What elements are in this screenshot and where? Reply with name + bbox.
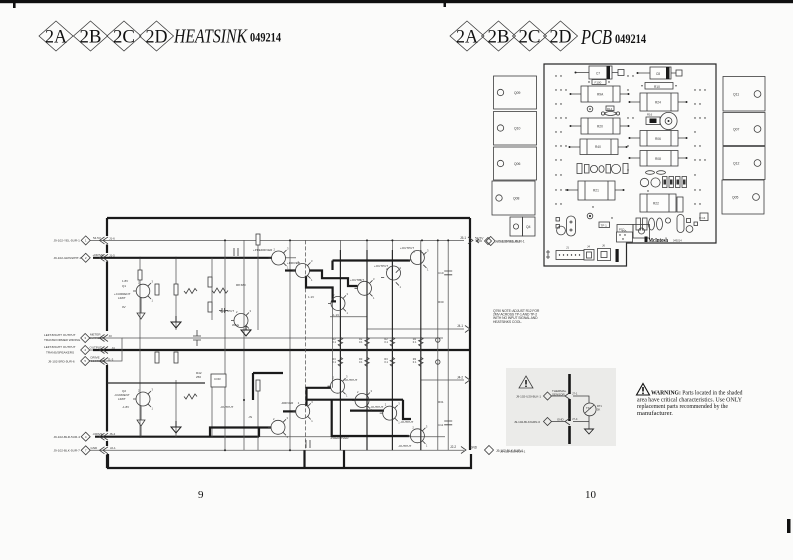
svg-text:0.1: 0.1: [332, 360, 336, 364]
svg-text:049214: 049214: [615, 31, 646, 46]
svg-text:3: 3: [398, 402, 400, 406]
svg-text:GND: GND: [470, 446, 478, 450]
svg-text:PCB: PCB: [580, 25, 612, 49]
svg-text:TRANS/SPEAKERS: TRANS/SPEAKERS: [46, 351, 74, 355]
svg-text:3: 3: [427, 249, 429, 253]
svg-text:1.8V: 1.8V: [122, 279, 128, 283]
svg-text:J9-102-BLK-5UR-7: J9-102-BLK-5UR-7: [54, 448, 81, 452]
svg-text:2: 2: [236, 310, 238, 314]
svg-text:C7: C7: [596, 71, 600, 75]
svg-text:3: 3: [152, 280, 154, 284]
svg-text:1: 1: [346, 394, 348, 398]
svg-text:J2-1: J2-1: [110, 446, 116, 450]
svg-text:J9-102-U20-BLK-1: J9-102-U20-BLK-1: [516, 394, 541, 398]
svg-text:J2-2: J2-2: [450, 445, 456, 449]
svg-text:J1-3: J1-3: [108, 357, 114, 361]
svg-text:-OUTPUT: -OUTPUT: [370, 405, 383, 409]
svg-text:54.5V: 54.5V: [93, 236, 101, 240]
svg-text:0.1: 0.1: [413, 360, 417, 364]
svg-text:SENSOR: SENSOR: [552, 392, 566, 396]
svg-text:OUTPUT: OUTPUT: [90, 345, 103, 349]
svg-text:3: 3: [371, 389, 373, 393]
svg-text:Q05: Q05: [732, 196, 739, 200]
svg-text:1: 1: [85, 239, 87, 243]
svg-text:0V: 0V: [122, 305, 126, 309]
svg-text:R14: R14: [607, 107, 613, 111]
svg-text:P1D: P1D: [619, 228, 624, 232]
svg-text:Q4: Q4: [526, 225, 531, 229]
svg-text:J1-6: J1-6: [109, 236, 115, 240]
svg-text:+DRIVER: +DRIVER: [287, 261, 301, 265]
svg-text:-1.8V: -1.8V: [122, 405, 129, 409]
svg-text:1.1V: 1.1V: [308, 295, 314, 299]
svg-text:54.5V: 54.5V: [475, 237, 484, 241]
svg-text:RT1: RT1: [597, 404, 602, 408]
svg-text:J7-1: J7-1: [572, 392, 578, 396]
svg-text:GND: GND: [557, 417, 565, 421]
svg-text:2: 2: [414, 250, 416, 254]
svg-text:2: 2: [273, 417, 275, 421]
svg-text:5: 5: [84, 359, 86, 363]
svg-text:3: 3: [287, 416, 289, 420]
svg-text:J9-102-GRN/WHT-2: J9-102-GRN/WHT-2: [54, 256, 82, 260]
svg-text:-OUTPUT: -OUTPUT: [398, 444, 411, 448]
svg-text:2: 2: [385, 403, 387, 407]
svg-text:0.1: 0.1: [359, 340, 363, 344]
svg-text:2: 2: [298, 401, 300, 405]
svg-text:F100: F100: [595, 81, 602, 85]
svg-text:LIMIT: LIMIT: [118, 296, 126, 300]
svg-text:2: 2: [274, 248, 276, 252]
svg-text:1: 1: [373, 296, 375, 300]
svg-text:manufacturer.: manufacturer.: [637, 410, 673, 417]
svg-text:1: 1: [311, 419, 313, 423]
svg-text:CURRENT: CURRENT: [89, 336, 104, 340]
svg-text:4: 4: [85, 435, 87, 439]
svg-text:Q07: Q07: [733, 128, 740, 132]
svg-text:0.1: 0.1: [332, 340, 336, 344]
svg-text:2C: 2C: [519, 28, 541, 48]
svg-text:C10: C10: [438, 271, 444, 275]
svg-text:2B: 2B: [488, 28, 510, 48]
svg-text:3: 3: [400, 266, 402, 270]
svg-text:3: 3: [311, 259, 313, 263]
svg-text:2C: 2C: [113, 28, 135, 48]
svg-text:R22: R22: [653, 202, 659, 206]
svg-text:1: 1: [287, 266, 289, 270]
svg-text:-OUTPUT: -OUTPUT: [344, 378, 357, 382]
svg-text:7: 7: [85, 449, 87, 453]
svg-text:Q12: Q12: [733, 162, 740, 166]
svg-text:J9-102-BLK/GRN-6: J9-102-BLK/GRN-6: [514, 420, 540, 424]
svg-text:1: 1: [426, 443, 428, 447]
svg-text:049214: 049214: [673, 239, 682, 243]
svg-text:Q08: Q08: [513, 197, 520, 201]
svg-text:Q10: Q10: [514, 127, 521, 131]
svg-text:TS1: TS1: [586, 406, 591, 410]
svg-text:R06: R06: [655, 137, 661, 141]
svg-text:1: 1: [152, 299, 154, 303]
svg-text:2: 2: [333, 293, 335, 297]
svg-text:Q1: Q1: [122, 284, 126, 288]
svg-text:J9-102-5RD-5UR-6: J9-102-5RD-5UR-6: [48, 360, 75, 364]
svg-text:3: 3: [250, 309, 252, 313]
svg-text:J1-5: J1-5: [109, 254, 115, 258]
svg-text:J5-1: J5-1: [460, 236, 466, 240]
svg-text:J9-102-YEL-5UR-1: J9-102-YEL-5UR-1: [54, 239, 81, 243]
svg-text:GND: GND: [91, 446, 99, 450]
svg-text:R08: R08: [655, 157, 661, 161]
svg-text:HEATSINKS COOL.: HEATSINKS COOL.: [493, 320, 522, 324]
svg-text:3: 3: [426, 424, 428, 428]
svg-text:1: 1: [152, 407, 154, 411]
svg-text:R30: R30: [438, 300, 444, 304]
svg-text:J9-102-U20-5UR-1: J9-102-U20-5UR-1: [500, 450, 526, 454]
svg-text:J6-4: J6-4: [109, 432, 115, 436]
svg-text:-DRIVE: -DRIVE: [93, 432, 103, 436]
svg-text:TP 1: TP 1: [601, 224, 608, 228]
svg-text:WAG: WAG: [232, 323, 240, 327]
svg-text:+OUTPUT: +OUTPUT: [220, 309, 234, 313]
svg-text:J6: J6: [602, 244, 605, 248]
svg-text:+OUTPUT: +OUTPUT: [374, 264, 388, 268]
svg-text:0.1: 0.1: [413, 340, 417, 344]
svg-text:0.1: 0.1: [384, 360, 388, 364]
svg-text:9: 9: [198, 489, 204, 501]
svg-text:R40: R40: [595, 145, 601, 149]
svg-text:R31: R31: [438, 400, 444, 404]
svg-text:LIMIT: LIMIT: [118, 397, 126, 401]
svg-text:0.1: 0.1: [384, 340, 388, 344]
svg-text:-IN: -IN: [248, 415, 252, 419]
svg-text:J4-1: J4-1: [457, 324, 463, 328]
svg-text:0.1: 0.1: [359, 360, 363, 364]
svg-text:2: 2: [85, 256, 87, 260]
svg-text:LEFT/RIGHT OUTPUT: LEFT/RIGHT OUTPUT: [44, 333, 76, 337]
svg-text:1: 1: [347, 311, 349, 315]
svg-text:1: 1: [400, 285, 402, 289]
svg-text:-PREDRIVER: -PREDRIVER: [330, 436, 349, 440]
svg-text:J9-102-BLR-5UR-4: J9-102-BLR-5UR-4: [54, 435, 81, 439]
svg-text:R24: R24: [655, 101, 661, 105]
svg-text:3: 3: [347, 292, 349, 296]
svg-text:R21: R21: [593, 189, 599, 193]
svg-text:LEFT/RIGHT OUTPUT: LEFT/RIGHT OUTPUT: [44, 345, 76, 349]
svg-text:C4: C4: [702, 216, 706, 220]
svg-text:R8 680: R8 680: [236, 283, 246, 287]
svg-text:McIntosh: McIntosh: [649, 237, 669, 244]
svg-text:3: 3: [373, 277, 375, 281]
svg-text:TRANSFORMER WIRING: TRANSFORMER WIRING: [44, 338, 81, 342]
svg-text:COR: COR: [214, 377, 222, 381]
svg-text:5K: 5K: [597, 407, 600, 411]
svg-text:2D: 2D: [550, 28, 572, 48]
svg-text:4: 4: [84, 348, 86, 352]
svg-text:+OUTPUT: +OUTPUT: [400, 246, 414, 250]
svg-text:2A: 2A: [456, 28, 479, 48]
svg-text:2: 2: [333, 376, 335, 380]
svg-text:C11: C11: [438, 423, 444, 427]
svg-text:J4: J4: [587, 245, 590, 249]
svg-text:2: 2: [412, 425, 414, 429]
svg-text:10: 10: [585, 489, 597, 501]
svg-text:+OUTPUT: +OUTPUT: [350, 278, 364, 282]
svg-text:+DRIVE: +DRIVE: [93, 253, 104, 257]
svg-text:-OUTPUT: -OUTPUT: [220, 405, 233, 409]
svg-text:R10: R10: [654, 85, 660, 89]
svg-text:Q11: Q11: [733, 93, 739, 97]
svg-text:-1.1V: -1.1V: [332, 313, 339, 317]
svg-text:2D: 2D: [146, 28, 168, 48]
svg-text:3: 3: [84, 336, 86, 340]
svg-text:J4: J4: [112, 346, 116, 350]
svg-text:2: 2: [357, 390, 359, 394]
svg-text:-DRIVER: -DRIVER: [281, 401, 294, 405]
svg-text:FEEDBACK: FEEDBACK: [89, 359, 105, 363]
svg-text:049214: 049214: [250, 30, 281, 45]
svg-text:Q06: Q06: [514, 162, 521, 166]
svg-text:J1: J1: [566, 246, 569, 250]
svg-text:R16: R16: [647, 113, 653, 117]
svg-text:J3: J3: [109, 334, 113, 338]
svg-text:J9-102-5R3-5UR-1: J9-102-5R3-5UR-1: [495, 239, 521, 243]
svg-text:R9A: R9A: [597, 93, 604, 97]
svg-text:2B: 2B: [80, 28, 102, 48]
svg-text:1: 1: [427, 268, 429, 272]
svg-text:-OUTPUT: -OUTPUT: [400, 420, 413, 424]
svg-text:+PREDRIVER: +PREDRIVER: [253, 248, 273, 252]
svg-text:3: 3: [152, 388, 154, 392]
svg-text:J7-4: J7-4: [572, 417, 578, 421]
svg-text:1: 1: [311, 278, 313, 282]
svg-text:3: 3: [287, 247, 289, 251]
svg-text:R20: R20: [597, 125, 603, 129]
svg-text:C8: C8: [656, 72, 660, 76]
svg-text:J4-2: J4-2: [457, 376, 463, 380]
svg-text:2A: 2A: [45, 28, 68, 48]
svg-text:250: 250: [196, 375, 201, 379]
svg-text:HEATSINK: HEATSINK: [173, 26, 248, 48]
svg-text:Q09: Q09: [514, 91, 521, 95]
